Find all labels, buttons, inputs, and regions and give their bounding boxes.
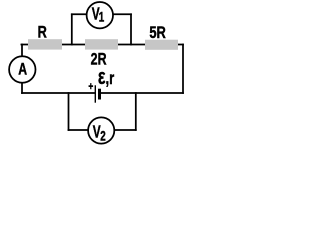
svg-text:ε,r: ε,r: [98, 66, 114, 90]
svg-text:A: A: [18, 61, 27, 79]
svg-text:2: 2: [100, 128, 106, 144]
svg-text:R: R: [38, 23, 47, 42]
svg-text:1: 1: [99, 9, 105, 25]
svg-text:+: +: [88, 81, 93, 94]
svg-text:5R: 5R: [149, 23, 166, 42]
